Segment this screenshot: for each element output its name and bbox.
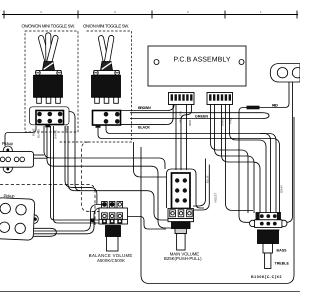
wire brown from CN2 to PCB connector A (121, 105, 175, 111)
main volume plate lower (168, 219, 194, 222)
border tick x=78 (77, 11, 79, 19)
bass/treble pot plate strip 1 (256, 213, 281, 220)
pickup 2 pole A (0, 203, 11, 214)
bass/treble shaft lower (265, 253, 271, 269)
cavity outline rounded rect (141, 117, 294, 284)
S1 pin 1 (37, 97, 42, 103)
bass/treble base (258, 230, 279, 244)
jack hole 1 (277, 68, 287, 78)
PCB assembly box (148, 46, 246, 86)
toggle switch S1 lever mid (46, 33, 51, 65)
bass/treble right ear (281, 220, 287, 226)
svg-text:P.C.B ASSEMBLY: P.C.B ASSEMBLY (174, 57, 231, 64)
PCB connector A (169, 93, 195, 105)
svg-text:VIOLET: VIOLET (214, 192, 218, 203)
pickup 1 wires (34, 154, 45, 156)
wire CN2 drop to push-pull loop (134, 142, 167, 177)
wire CN2 bottom down and right (106, 125, 276, 213)
dashed box switch 2 (58, 31, 132, 142)
jack wire red (260, 82, 290, 108)
connector CN2 under S2 (93, 111, 121, 126)
svg-text:BROWN: BROWN (138, 106, 151, 110)
sheet top border line (2, 14, 298, 16)
wire balance to main volume (122, 217, 167, 230)
wire pink (230, 105, 267, 214)
svg-text:BLUE: BLUE (205, 175, 209, 183)
border tick x=4 (3, 11, 5, 19)
balance pot mid lugs (91, 213, 123, 224)
toggle switch S2 lever right (104, 35, 114, 65)
S2 pin 1 (95, 97, 100, 103)
toggle switch S1 bushing (43, 62, 55, 71)
svg-text:B100K[C.C]X2: B100K[C.C]X2 (251, 275, 282, 279)
wire from blob to bass pot (239, 108, 251, 223)
wire CN1 right pins down (65, 126, 97, 204)
toggle switch S1 mount plate (36, 71, 61, 76)
balance pot base (106, 226, 121, 237)
border tick x=297 (296, 11, 298, 19)
pickup 2 side tab (34, 215, 39, 224)
jack hole 2 (292, 68, 302, 78)
U-turn wire pair (130, 113, 269, 119)
pickup 1 top ear (3, 146, 12, 155)
svg-text:RED: RED (272, 103, 278, 107)
pickup 2 pole D (15, 223, 26, 234)
bass/treble pot plate strip 2 (255, 220, 282, 228)
bass/treble left ear (250, 220, 256, 226)
PCB hole right (239, 60, 244, 65)
S2 pin 2 (104, 97, 109, 103)
svg-text:Pickup: Pickup (2, 141, 14, 146)
wire bundle CN1 to balance pot left (51, 126, 100, 220)
CN1 bottom tab (45, 125, 50, 128)
pickup 2 pole B (16, 204, 27, 215)
svg-text:ON/ON/ON MINI TOGGLE SW.: ON/ON/ON MINI TOGGLE SW. (22, 23, 76, 28)
connector CN1 inner block (36, 111, 64, 125)
toggle switch S1 lever right (46, 35, 59, 65)
main volume base (172, 222, 191, 229)
svg-text:BLACK: BLACK (37, 128, 41, 138)
main volume shaft (177, 234, 186, 251)
main volume collar (175, 229, 187, 234)
wire CN1 to push-pull loop (158) (44, 126, 165, 169)
pickup 1 bottom ear (3, 164, 12, 173)
svg-text:BASS: BASS (277, 249, 288, 253)
border tick x=152 (151, 11, 153, 19)
CN1 wire labels (vertical) (32, 125, 69, 139)
toggle switch S2 body (92, 75, 121, 97)
balance pot top lugs (102, 202, 123, 209)
toggle switch S2 mount plate (94, 71, 119, 76)
wire x75 (69, 112, 80, 191)
wire black from CN2 to PCB connector A (121, 105, 174, 125)
S1 pin 2 (46, 97, 51, 103)
wire loop around push-pull (167, 169, 205, 208)
toggle switch S1 body (34, 75, 63, 97)
wire red PCB-A down (186, 105, 188, 171)
svg-text:RED: RED (188, 120, 192, 126)
svg-text:BLACK: BLACK (138, 126, 150, 130)
balance pot shaft (107, 237, 119, 252)
wire B2 (215, 105, 255, 214)
svg-text:WHITE: WHITE (54, 130, 58, 139)
main volume lug plate (168, 209, 194, 219)
wire blue (193, 159, 206, 207)
toggle switch S2 bushing (101, 62, 113, 71)
svg-text:WHITE: WHITE (220, 117, 224, 126)
wire white (222, 105, 261, 214)
wire green PCB-A (181, 105, 192, 171)
pickup 1 body (0, 152, 34, 168)
svg-text:ON/ON MINI TOGGLE SW.: ON/ON MINI TOGGLE SW. (83, 23, 129, 28)
PCB connector B (207, 93, 233, 105)
CN2 pin dots (104, 112, 120, 124)
dashed cavity line left (0, 185, 95, 227)
wire pcb-b long drop to bass left (226, 105, 254, 211)
toggle switch S1 lever left (38, 33, 59, 65)
bass/treble shaft upper (263, 244, 273, 254)
S2 pin 3 (114, 97, 119, 103)
wire B1 from PCB-B sweeping right down to bass pot (211, 105, 249, 214)
wire yellow PCB-A to push-pull switch (175, 105, 177, 171)
pickup 2 pole C (0, 222, 10, 233)
dashed box switch 1 (25, 31, 78, 132)
svg-text:TREBLE: TREBLE (275, 262, 290, 266)
PCB hole left (154, 60, 159, 65)
border tick x=225 (224, 11, 226, 19)
wire from CN1 left to pickup1 (5, 126, 36, 146)
jack wire 2 (285, 82, 293, 222)
svg-text:B25K(PUSH-PULL): B25K(PUSH-PULL) (164, 256, 202, 261)
wire CN1 to push-pull loop (166) (47, 126, 172, 228)
balance pot plate (99, 208, 128, 224)
pickup 2 body (0, 198, 39, 241)
svg-text:GRAY: GRAY (280, 185, 284, 193)
wire pair from pickup 2 up (31, 228, 56, 236)
pickup 1 poles (0, 157, 5, 162)
sheet bottom border line (0, 291, 300, 293)
dashed shield line from box2 to balance pot (82, 142, 113, 211)
CN2 bottom tab (96, 125, 101, 128)
S1 pin 3 (56, 97, 61, 103)
svg-text:A500K/C500K: A500K/C500K (97, 258, 125, 263)
output jack body (270, 64, 300, 83)
toggle switch S2 lever left (98, 35, 114, 66)
main volume push-pull switch body (172, 173, 191, 209)
connector CN1 under S1 outer (30, 107, 70, 125)
solder sleeve blob (247, 106, 260, 110)
CN1 pin dots (37, 112, 62, 124)
wire violet (194, 165, 209, 211)
